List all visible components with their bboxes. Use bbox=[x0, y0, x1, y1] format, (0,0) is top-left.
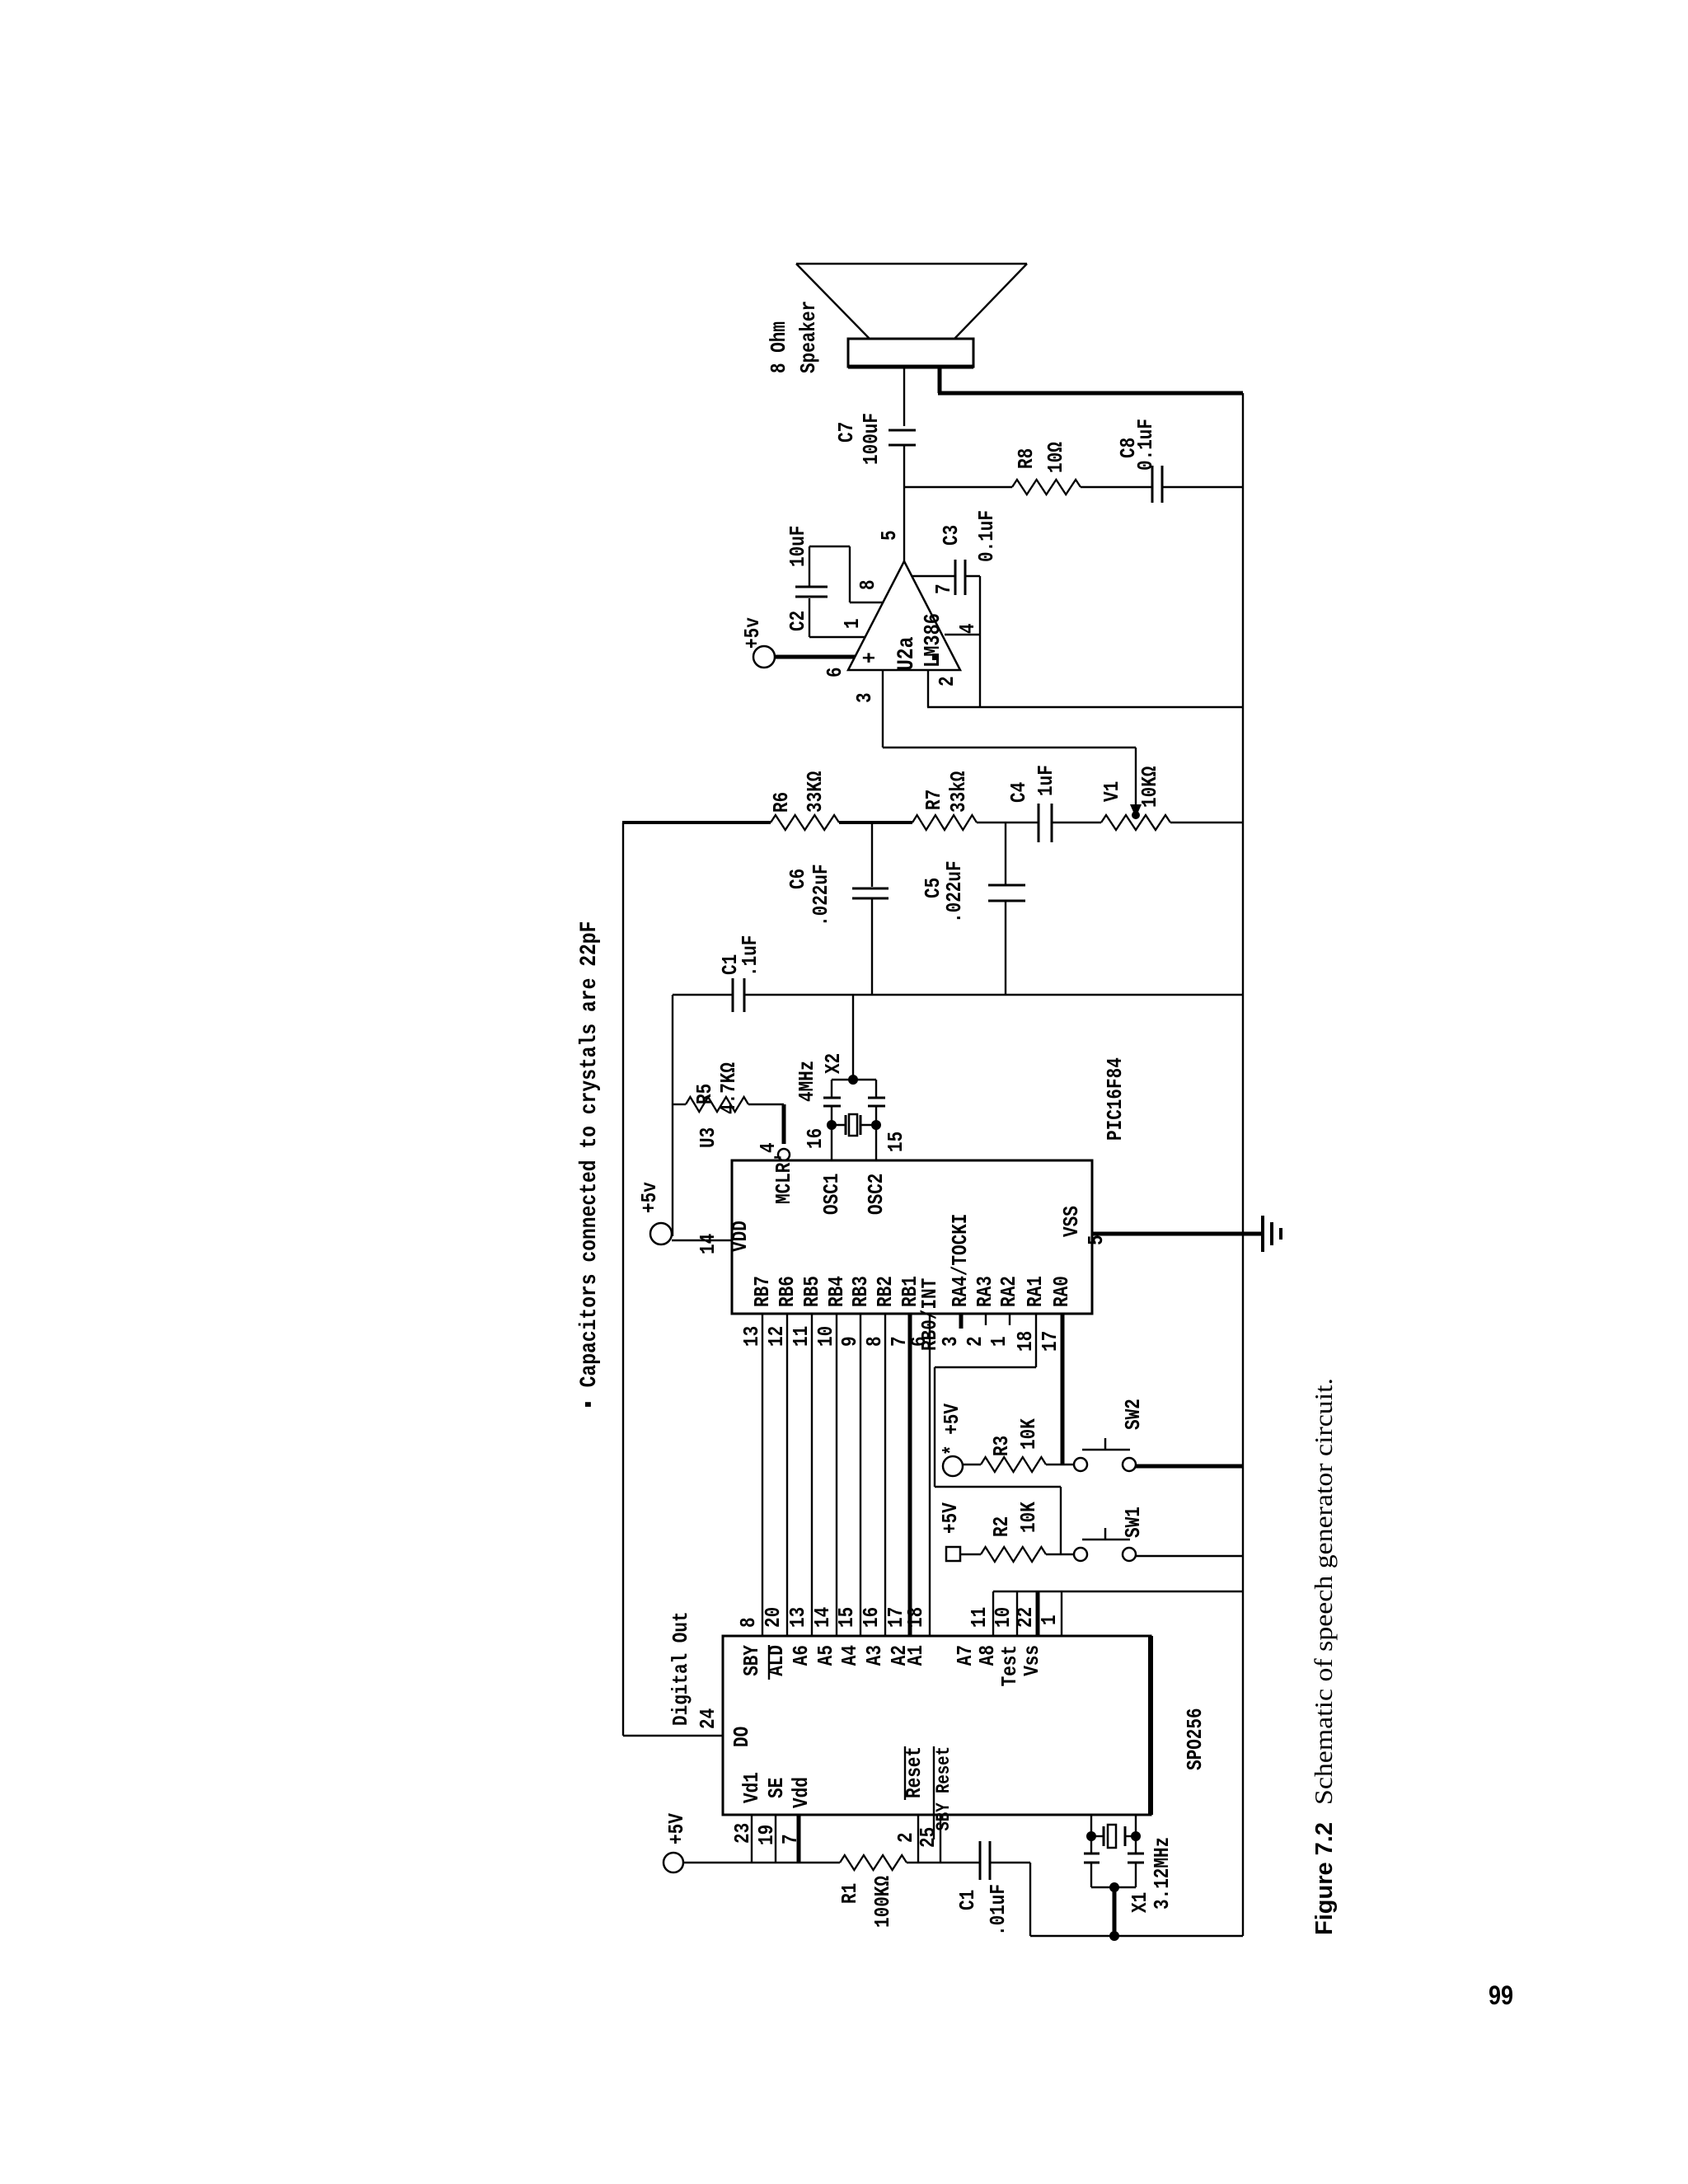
svg-text:A5: A5 bbox=[814, 1645, 838, 1666]
capacitor C4 1uF bbox=[1006, 765, 1058, 842]
+5v supply to PIC VDD bbox=[637, 1182, 732, 1244]
svg-text:C4: C4 bbox=[1006, 782, 1031, 803]
svg-text:SBY: SBY bbox=[739, 1645, 764, 1676]
wire R1 to reset pins bbox=[907, 1862, 980, 1863]
svg-text:RA2: RA2 bbox=[996, 1276, 1021, 1307]
svg-text:U3: U3 bbox=[696, 1127, 720, 1148]
IC U1 SPO256 box bbox=[723, 1636, 1207, 1815]
capacitor C2 10uF (pins 1-8) bbox=[785, 526, 883, 637]
wire speaker top (to C7) bbox=[903, 367, 905, 426]
resistor R1 100K bbox=[837, 1855, 907, 1928]
svg-text:0.1uF: 0.1uF bbox=[1133, 419, 1158, 471]
svg-text:99: 99 bbox=[1489, 1980, 1513, 2010]
svg-text:18: 18 bbox=[903, 1607, 928, 1628]
svg-text:9: 9 bbox=[837, 1336, 862, 1347]
PIC pin 3 RA4/TOCKI stub bbox=[938, 1214, 973, 1347]
svg-text:18: 18 bbox=[1013, 1331, 1038, 1352]
wire PIC VSS to ground (thick) bbox=[1092, 1232, 1263, 1236]
PIC pin 17 RA0 wire (thick) bbox=[1038, 1276, 1074, 1465]
svg-text:SPO256: SPO256 bbox=[1183, 1708, 1207, 1770]
svg-text:OSC1: OSC1 bbox=[819, 1174, 844, 1215]
resistor R2 10K bbox=[960, 1502, 1074, 1562]
capacitor C8 0.1uF bbox=[1081, 419, 1243, 503]
svg-text:R8: R8 bbox=[1014, 448, 1039, 469]
svg-text:Test: Test bbox=[997, 1645, 1022, 1686]
svg-text:Speaker: Speaker bbox=[796, 301, 821, 373]
svg-text:6: 6 bbox=[823, 667, 847, 677]
svg-text:1: 1 bbox=[840, 618, 865, 629]
potentiometer V1 10K bbox=[1100, 766, 1170, 830]
svg-text:V1: V1 bbox=[1100, 781, 1124, 802]
svg-text:A6: A6 bbox=[789, 1645, 814, 1666]
svg-text:X1: X1 bbox=[1128, 1892, 1152, 1913]
wire +5v distribution bbox=[672, 995, 673, 1236]
svg-text:23: 23 bbox=[730, 1823, 755, 1844]
svg-text:19: 19 bbox=[754, 1825, 779, 1845]
svg-text:Vss: Vss bbox=[1020, 1645, 1044, 1676]
resistor R5 4.7K (MCLR pull-up) bbox=[673, 1062, 784, 1114]
svg-text:15: 15 bbox=[884, 1132, 908, 1152]
wire pin 3 to V1 wiper bbox=[852, 670, 1142, 819]
svg-text:10: 10 bbox=[814, 1326, 838, 1347]
svg-text:VDD: VDD bbox=[728, 1221, 753, 1252]
svg-text:2: 2 bbox=[935, 676, 959, 687]
wire PIC RB6 to SPO256 (pin 12 / SPO pin 20) bbox=[761, 1314, 789, 1636]
PIC label RB2 bbox=[873, 1276, 898, 1307]
crystal X2 4MHz with 22pF caps bbox=[795, 1053, 885, 1136]
svg-text:Schematic of speech generator: Schematic of speech generator circuit. bbox=[1309, 1378, 1338, 1805]
wire PIC RB2 to SPO256 (pin 8 / SPO pin 16) bbox=[859, 1314, 887, 1636]
svg-text:100uF: 100uF bbox=[859, 413, 884, 465]
svg-text:12: 12 bbox=[764, 1326, 789, 1347]
capacitor C7 100uF bbox=[834, 413, 916, 487]
SPO label A3 bbox=[862, 1645, 887, 1666]
svg-text:RB7: RB7 bbox=[750, 1276, 775, 1307]
svg-text:33kΩ: 33kΩ bbox=[946, 771, 971, 813]
SPO pin 24 DO (Digital Out) bbox=[623, 1611, 754, 1747]
svg-text:R3: R3 bbox=[989, 1436, 1014, 1456]
resistor R8 10 ohm bbox=[1012, 442, 1081, 494]
svg-text:15: 15 bbox=[834, 1607, 859, 1628]
wire op-amp output pin 5 bbox=[877, 487, 904, 561]
resistor R7 33K bbox=[912, 771, 977, 830]
svg-text:A1: A1 bbox=[903, 1645, 928, 1666]
capacitor C5 .022uF bbox=[921, 823, 1025, 995]
wire PIC RB4 to SPO256 (pin 10 / SPO pin 14) bbox=[810, 1314, 838, 1636]
PIC label RB4 bbox=[824, 1276, 849, 1307]
svg-text:SE: SE bbox=[764, 1778, 789, 1798]
wire C4 to V1 bbox=[1052, 822, 1101, 823]
capacitor C3 0.1uF (pin 7) bbox=[912, 510, 999, 595]
PIC label RB6 bbox=[775, 1276, 799, 1307]
svg-text:4: 4 bbox=[955, 623, 980, 634]
PIC pin 15 OSC2 bbox=[864, 1132, 908, 1215]
+5v supply to pin 6 bbox=[740, 617, 855, 677]
svg-text:RB6: RB6 bbox=[775, 1276, 799, 1307]
svg-text:2: 2 bbox=[893, 1832, 918, 1843]
label U3 bbox=[696, 1127, 720, 1148]
svg-text:PIC16F84: PIC16F84 bbox=[1103, 1057, 1128, 1141]
svg-text:C6: C6 bbox=[785, 869, 810, 889]
capacitor C6 .022uF bbox=[785, 823, 889, 995]
svg-text:+5V: +5V bbox=[938, 1502, 963, 1534]
wire pins 2,4 to ground bbox=[927, 576, 1243, 707]
svg-text:A8: A8 bbox=[975, 1645, 1000, 1666]
svg-text:14: 14 bbox=[810, 1607, 835, 1628]
svg-text:RA4/TOCKI: RA4/TOCKI bbox=[948, 1214, 973, 1307]
SPO label SBY bbox=[739, 1645, 764, 1676]
wire PIC RB1 to SPO256 (pin 7 / SPO pin 17) bbox=[884, 1314, 912, 1636]
PIC label RB7 bbox=[750, 1276, 775, 1307]
svg-text:.1uF: .1uF bbox=[738, 935, 762, 977]
SPO pin 7 Vdd bbox=[778, 1777, 814, 1863]
op-amp U2a LM386 bbox=[848, 561, 960, 671]
wire feedback to R6 (thick) bbox=[622, 821, 771, 824]
svg-text:100KΩ: 100KΩ bbox=[870, 1876, 895, 1928]
svg-text:+5v: +5v bbox=[637, 1182, 662, 1213]
SPO pin 2 Reset bbox=[893, 1746, 926, 1862]
svg-text:VSS: VSS bbox=[1059, 1206, 1084, 1237]
SPO ground ladder pins 11,10,22,1 bbox=[953, 1591, 1243, 1686]
svg-text:R2: R2 bbox=[989, 1516, 1014, 1537]
svg-text:SW2: SW2 bbox=[1121, 1399, 1146, 1430]
svg-text:Figure 7.2: Figure 7.2 bbox=[1311, 1822, 1338, 1935]
terminal +5V (R2) bbox=[938, 1502, 963, 1561]
speaker LS1 8 Ohm bbox=[796, 264, 1027, 367]
svg-text:C7: C7 bbox=[834, 422, 859, 443]
label 8 Ohm Speaker bbox=[767, 301, 821, 373]
svg-text:ALD: ALD bbox=[764, 1645, 789, 1676]
svg-text:5: 5 bbox=[877, 530, 902, 541]
svg-text:10K: 10K bbox=[1016, 1502, 1041, 1533]
PIC label RB5 bbox=[799, 1276, 824, 1307]
svg-text:SBY Reset: SBY Reset bbox=[933, 1746, 954, 1831]
svg-text:10uF: 10uF bbox=[785, 526, 810, 567]
note capacitors 22pF bbox=[577, 921, 603, 1410]
svg-text:C3: C3 bbox=[939, 525, 964, 546]
svg-text:4.7KΩ: 4.7KΩ bbox=[716, 1062, 741, 1114]
SPO pin 23 Vd1 bbox=[730, 1772, 764, 1863]
PIC pin 4 MCLR bbox=[756, 1142, 796, 1204]
capacitor C1 .1uF (decoupling) bbox=[673, 935, 1243, 1012]
svg-text:22: 22 bbox=[1013, 1607, 1038, 1628]
wire +5V feed bbox=[683, 1862, 840, 1863]
terminal +5V (R3) bbox=[940, 1404, 964, 1476]
svg-text:0.1uF: 0.1uF bbox=[974, 510, 999, 562]
caption figure 7.2 bbox=[1309, 1378, 1338, 1935]
wire PIC RB7 to SPO256 (pin 13 / SPO pin 8) bbox=[736, 1314, 764, 1636]
svg-text:4MHz: 4MHz bbox=[795, 1061, 819, 1102]
svg-text:C2: C2 bbox=[785, 611, 810, 631]
wire PIC RB3 to SPO256 (pin 9 / SPO pin 15) bbox=[834, 1314, 862, 1636]
svg-text:11: 11 bbox=[967, 1607, 992, 1628]
svg-text:11: 11 bbox=[789, 1326, 814, 1347]
svg-text:RA3: RA3 bbox=[973, 1276, 997, 1307]
svg-text:R1: R1 bbox=[837, 1883, 862, 1904]
SPO label A5 bbox=[814, 1645, 838, 1666]
svg-text:RB4: RB4 bbox=[824, 1276, 849, 1307]
SPO label A4 bbox=[837, 1645, 862, 1666]
resistor R6 33K bbox=[769, 771, 839, 830]
svg-text:U2a: U2a bbox=[894, 636, 920, 671]
svg-text:DO: DO bbox=[729, 1727, 754, 1747]
PIC label RB0/INT bbox=[917, 1278, 942, 1351]
svg-text:33KΩ: 33KΩ bbox=[803, 771, 828, 813]
svg-text:13: 13 bbox=[785, 1607, 810, 1628]
PIC pin 18 RA1 wire bbox=[935, 1276, 1061, 1554]
svg-text:24: 24 bbox=[696, 1708, 720, 1729]
svg-text:10Ω: 10Ω bbox=[1043, 442, 1068, 473]
svg-text:4: 4 bbox=[756, 1142, 781, 1153]
svg-text:A3: A3 bbox=[862, 1645, 887, 1666]
PIC pin 16 OSC1 bbox=[803, 1128, 844, 1215]
SPO label A6 bbox=[789, 1645, 814, 1666]
svg-text:17: 17 bbox=[1038, 1331, 1062, 1352]
node output junction bbox=[904, 486, 1012, 488]
svg-text:X2: X2 bbox=[821, 1053, 846, 1074]
svg-text:A4: A4 bbox=[837, 1645, 862, 1666]
svg-text:.022uF: .022uF bbox=[809, 864, 833, 926]
wire SW2 to ground (thick) bbox=[1136, 1465, 1243, 1469]
wire OSC2 stub bbox=[875, 1125, 877, 1160]
svg-text:20: 20 bbox=[761, 1607, 785, 1628]
SPO label A1 bbox=[903, 1645, 928, 1666]
PIC label RB3 bbox=[848, 1276, 873, 1307]
terminal +5V (SPO supply) bbox=[663, 1813, 689, 1872]
svg-text:RB3: RB3 bbox=[848, 1276, 873, 1307]
svg-text:* +5V: * +5V bbox=[940, 1404, 964, 1455]
svg-text:3.12MHz: 3.12MHz bbox=[1150, 1837, 1175, 1910]
SPO label ALD bbox=[764, 1645, 789, 1680]
wire ground bus (bottom rail) bbox=[1242, 393, 1244, 1936]
svg-text:+: + bbox=[858, 652, 884, 663]
wire PIC RB5 to SPO256 (pin 11 / SPO pin 13) bbox=[785, 1314, 814, 1636]
svg-text:SW1: SW1 bbox=[1121, 1507, 1146, 1538]
SPO pin 25 SBY Reset bbox=[916, 1746, 954, 1862]
crystal X1 3.12MHz with 22pF caps bbox=[1084, 1815, 1175, 1941]
svg-text:R7: R7 bbox=[921, 790, 946, 810]
PIC pin 14 VDD bbox=[696, 1221, 753, 1254]
svg-text:13: 13 bbox=[739, 1326, 764, 1347]
svg-text:3: 3 bbox=[852, 692, 877, 703]
svg-text:1uF: 1uF bbox=[1034, 765, 1058, 796]
switch SW1 bbox=[1074, 1507, 1146, 1561]
PIC pin 5 VSS bbox=[1059, 1206, 1109, 1245]
svg-text:▪ Capacitors connected to crys: ▪ Capacitors connected to crystals are 2… bbox=[577, 921, 603, 1410]
svg-text:2: 2 bbox=[963, 1336, 987, 1347]
svg-text:5: 5 bbox=[1084, 1235, 1109, 1245]
svg-text:RB2: RB2 bbox=[873, 1276, 898, 1307]
svg-text:Vd1: Vd1 bbox=[739, 1772, 764, 1803]
IC U3 PIC16F84 box bbox=[732, 1057, 1128, 1314]
svg-text:Vdd: Vdd bbox=[789, 1777, 814, 1808]
svg-text:+5V: +5V bbox=[664, 1813, 689, 1844]
wire X2 to ground line bbox=[848, 995, 858, 1085]
svg-text:1: 1 bbox=[1037, 1615, 1062, 1625]
svg-text:.022uF: .022uF bbox=[942, 860, 967, 923]
svg-text:8: 8 bbox=[856, 579, 880, 590]
svg-text:7: 7 bbox=[931, 583, 956, 594]
PIC label RB1 bbox=[898, 1276, 922, 1307]
wire SW1 to ground bbox=[1136, 1555, 1243, 1557]
svg-text:10K: 10K bbox=[1016, 1418, 1041, 1450]
svg-text:RB5: RB5 bbox=[799, 1276, 824, 1307]
wire ground riser left bbox=[1030, 1935, 1243, 1937]
ground symbol bbox=[1263, 1216, 1281, 1252]
svg-text:10KΩ: 10KΩ bbox=[1137, 766, 1162, 808]
wire speaker return (thick, to ground bus) bbox=[938, 367, 1243, 393]
PIC pin 1 RA2 stub bbox=[987, 1276, 1021, 1347]
svg-text:A7: A7 bbox=[953, 1645, 978, 1666]
svg-text:MCLR': MCLR' bbox=[771, 1152, 796, 1204]
svg-text:.01uF: .01uF bbox=[986, 1884, 1010, 1936]
capacitor C1 .01uF (reset) bbox=[955, 1841, 1030, 1936]
wire R7 to C4 bbox=[977, 822, 1039, 823]
svg-text:R5: R5 bbox=[692, 1084, 717, 1104]
svg-text:7: 7 bbox=[778, 1834, 803, 1844]
svg-text:16: 16 bbox=[859, 1607, 884, 1628]
svg-text:+5v: +5v bbox=[740, 617, 765, 649]
SPO label A2 bbox=[887, 1645, 912, 1666]
wire R5 to MCLR (thick) bbox=[782, 1104, 786, 1144]
svg-text:16: 16 bbox=[803, 1128, 828, 1149]
svg-text:8 Ohm: 8 Ohm bbox=[767, 321, 791, 373]
svg-text:RA1: RA1 bbox=[1023, 1276, 1048, 1307]
PIC pin 2 RA3 stub bbox=[963, 1276, 997, 1347]
svg-text:Digital Out: Digital Out bbox=[668, 1611, 693, 1726]
svg-text:R6: R6 bbox=[769, 792, 794, 813]
wire digital out feedback (top) bbox=[622, 823, 624, 1736]
svg-text:8: 8 bbox=[862, 1336, 887, 1347]
wire PIC RB0/INT to SPO256 (pin 6 / SPO pin 18) bbox=[903, 1314, 931, 1636]
svg-text:RA0: RA0 bbox=[1049, 1276, 1074, 1307]
SPO pin 19 SE bbox=[754, 1778, 789, 1863]
switch SW2 bbox=[1074, 1399, 1146, 1471]
wire R6-R7 junction (thick) bbox=[839, 821, 912, 824]
svg-text:10: 10 bbox=[991, 1607, 1015, 1628]
wire OSC1 stub bbox=[831, 1125, 832, 1160]
resistor R3 10K bbox=[963, 1418, 1074, 1472]
svg-text:OSC2: OSC2 bbox=[864, 1174, 889, 1215]
svg-text:8: 8 bbox=[736, 1617, 761, 1628]
svg-text:1: 1 bbox=[987, 1336, 1011, 1347]
svg-text:3: 3 bbox=[938, 1336, 963, 1347]
svg-text:C1: C1 bbox=[955, 1890, 980, 1910]
svg-text:LM386: LM386 bbox=[921, 613, 946, 668]
wire V1 to ground bus bbox=[1170, 822, 1243, 823]
svg-text:14: 14 bbox=[696, 1234, 720, 1254]
